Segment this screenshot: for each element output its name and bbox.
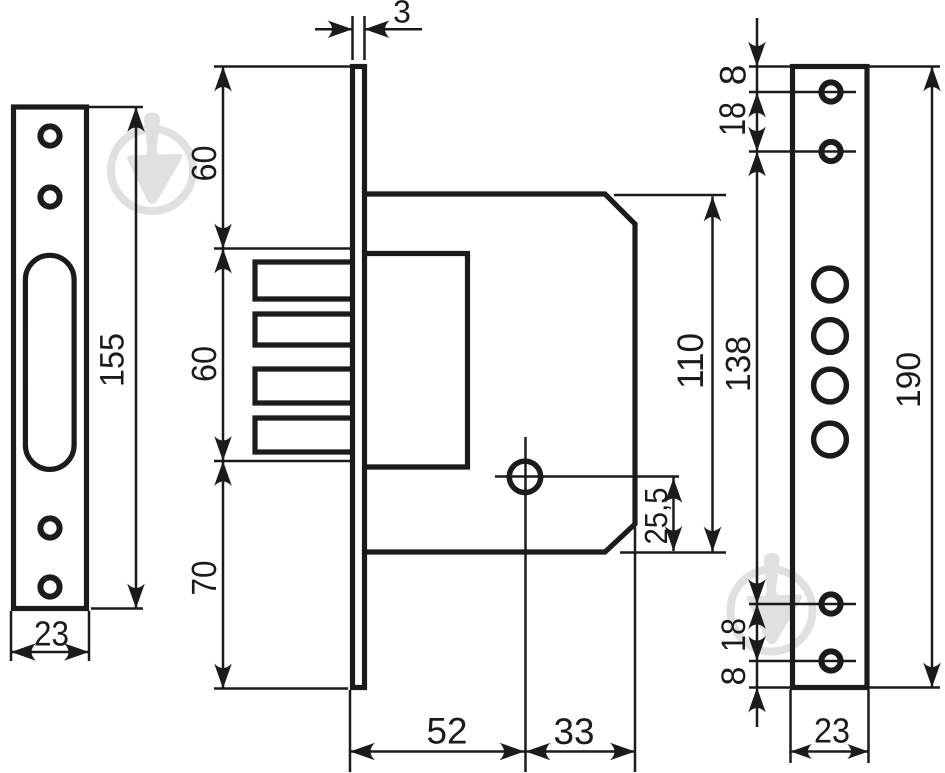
arrow 23-left right xyxy=(64,643,89,661)
svg-text:3: 3 xyxy=(393,0,411,30)
extension line 23-right left xyxy=(789,690,792,763)
svg-text:155: 155 xyxy=(94,333,132,387)
svg-text:110: 110 xyxy=(670,333,711,389)
svg-text:60: 60 xyxy=(185,346,224,382)
extension line 70 bottom xyxy=(214,687,348,690)
dimension line 23-left xyxy=(11,651,89,654)
bolt bar 3 xyxy=(255,369,354,403)
arrow 25.5 down xyxy=(665,526,683,551)
label 155 xyxy=(94,333,132,387)
dimension line 155 xyxy=(135,107,138,609)
arrow 70 top up xyxy=(214,461,232,486)
center line hole bottom2 right plate xyxy=(749,660,856,663)
arrow 60 mid up xyxy=(214,249,232,274)
dimension line 110 xyxy=(711,197,714,552)
dimension line 8-18-138-18-8 column xyxy=(756,18,759,727)
bolt bar 4 xyxy=(255,418,354,452)
arrow 23-left left xyxy=(11,643,36,661)
arrow 138 bottom down xyxy=(748,579,766,604)
extension line 60 top xyxy=(214,65,350,68)
extension line 23-left right xyxy=(88,611,91,661)
extension line 3 left xyxy=(351,16,354,60)
arrow 155 top xyxy=(127,107,145,132)
arrow 33 left xyxy=(526,743,551,761)
arrow 190 top xyxy=(923,67,941,92)
center line vertical of fixing hole / extension 52-33 xyxy=(524,437,527,772)
arrow 25.5 up xyxy=(665,478,683,503)
left faceplate outline xyxy=(14,107,87,609)
extension line right plate top xyxy=(749,65,940,68)
svg-text:138: 138 xyxy=(719,336,758,392)
arrow 138 top up xyxy=(748,152,766,177)
arrow 52 right xyxy=(500,743,525,761)
right faceplate big circle 3 xyxy=(814,369,847,402)
dimension line 3 left segment xyxy=(315,28,353,31)
extension line right plate bottom xyxy=(749,686,940,689)
right faceplate big circle 4 xyxy=(814,423,847,456)
arrow 110 top xyxy=(704,197,722,222)
right faceplate big circle 2 xyxy=(814,320,847,353)
center line hole top2 right plate xyxy=(749,150,856,153)
extension line 23-right right xyxy=(867,690,870,763)
dimension line 190 xyxy=(931,67,934,688)
left faceplate hole 1 xyxy=(40,126,59,145)
right faceplate hole top1 xyxy=(821,82,840,101)
label 190 xyxy=(890,352,928,408)
arrow 60 mid down xyxy=(214,224,232,249)
arrow 190 bottom xyxy=(923,663,941,688)
extension line 23-left left xyxy=(10,611,13,661)
svg-text:25,5: 25,5 xyxy=(638,488,674,545)
arrow 3 left xyxy=(328,20,353,38)
svg-text:18: 18 xyxy=(712,102,753,136)
arrow 18-bottom up xyxy=(748,604,766,629)
bolt bar 2 xyxy=(255,314,354,345)
arrow 8-bottom up xyxy=(748,688,766,713)
center line horizontal of fixing hole xyxy=(495,475,679,478)
right faceplate hole top2 xyxy=(821,142,840,161)
arrow 155 bottom xyxy=(127,584,145,609)
extension line 3 right xyxy=(363,16,366,60)
label 60 middle xyxy=(185,346,224,382)
arrow 52 left xyxy=(350,743,375,761)
front strip faceplate xyxy=(353,67,365,688)
arrow 18-top up xyxy=(748,93,766,118)
right faceplate hole bottom2 xyxy=(821,651,840,670)
extension line 155 bottom xyxy=(91,607,143,610)
arrow 70 bottom down xyxy=(214,664,232,689)
center line hole bottom1 right plate xyxy=(749,603,856,606)
dimension line 23-right xyxy=(791,750,869,753)
lock body inner housing xyxy=(364,254,468,468)
arrow 60 top up xyxy=(214,67,232,92)
svg-text:23: 23 xyxy=(34,615,69,654)
arrow 23-right left xyxy=(791,744,812,759)
label 18 bottom xyxy=(715,618,753,652)
label 60 top xyxy=(185,146,224,182)
left faceplate hole 2 xyxy=(40,187,59,206)
label 25,5 xyxy=(638,488,674,545)
svg-text:60: 60 xyxy=(185,146,224,182)
extension line 52 left xyxy=(349,690,352,772)
extension line 110 top xyxy=(614,194,726,197)
svg-text:33: 33 xyxy=(554,711,595,752)
arrow 110 bottom xyxy=(704,527,722,552)
extension line 110/25.5 bottom xyxy=(620,551,726,554)
watermark logo top-left xyxy=(111,113,193,212)
right faceplate outline xyxy=(793,67,868,688)
arrow 3 right xyxy=(365,20,390,38)
fixing hole circle xyxy=(509,461,540,492)
svg-text:190: 190 xyxy=(890,352,928,408)
left faceplate oval slot xyxy=(25,255,74,469)
watermark logo bottom-right xyxy=(731,553,813,652)
bolt bar 1 xyxy=(255,262,354,299)
right faceplate hole bottom1 xyxy=(821,594,840,613)
label 70 xyxy=(185,561,224,596)
label 8 bottom xyxy=(715,667,753,686)
svg-text:8: 8 xyxy=(715,667,753,686)
svg-text:18: 18 xyxy=(715,618,753,652)
lock body outline xyxy=(364,194,635,552)
extension line 60 bottom xyxy=(214,460,352,463)
center line hole top1 right plate xyxy=(749,91,856,94)
dimension line 52-33 xyxy=(350,750,635,753)
svg-text:52: 52 xyxy=(427,711,468,752)
arrow 23-right right xyxy=(847,744,868,759)
arrow 18-top down xyxy=(748,127,766,152)
label 8 top xyxy=(713,65,754,86)
dimension line 25.5 xyxy=(672,478,675,552)
arrow 33 right xyxy=(610,743,635,761)
label 110 xyxy=(670,333,711,389)
label 18 top xyxy=(712,102,753,136)
extension line 60 middle xyxy=(214,247,352,250)
left faceplate hole 3 xyxy=(40,518,59,537)
extension line 33 right xyxy=(634,527,637,772)
svg-text:8: 8 xyxy=(713,65,754,86)
svg-text:23: 23 xyxy=(814,712,850,751)
arrow 60 low down xyxy=(214,436,232,461)
dimension line 3 right segment xyxy=(365,28,423,31)
label 138 xyxy=(719,336,758,392)
svg-text:70: 70 xyxy=(185,561,224,596)
arrow 18-bottom down xyxy=(748,636,766,661)
extension line 155 top xyxy=(85,106,143,109)
right faceplate big circle 1 xyxy=(814,268,847,301)
dimension line 60-60-70 column xyxy=(222,67,225,689)
arrow 8-top down xyxy=(748,42,766,67)
left faceplate hole 4 xyxy=(40,577,59,596)
